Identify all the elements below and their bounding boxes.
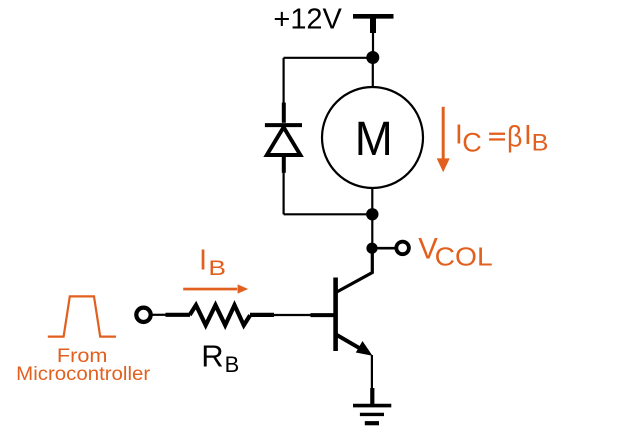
wire: diode branch vertical (bottom) <box>283 172 285 214</box>
resistor RB lead (right thick) <box>250 313 274 317</box>
svg-text:R: R <box>201 338 223 373</box>
svg-text:Microcontroller: Microcontroller <box>16 363 151 385</box>
wire: node A to motor <box>372 58 374 91</box>
svg-text:I: I <box>199 245 207 277</box>
IB current arrow <box>183 284 248 293</box>
transistor Q1 base lead (thick) <box>311 313 335 317</box>
resistor RB lead (left thick) <box>166 313 191 317</box>
+12V power rail symbol <box>353 16 394 33</box>
wire: node B to node C <box>371 214 373 248</box>
svg-text:C: C <box>462 128 482 158</box>
wire: diode branch vertical (top) <box>283 58 285 104</box>
transistor Q1 emitter lead with arrow <box>336 334 373 355</box>
node C (collector node) <box>366 243 377 254</box>
node B (junction dot at motor bottom) <box>366 208 378 220</box>
svg-text:β: β <box>507 120 522 153</box>
svg-text:B: B <box>208 256 226 280</box>
IB label <box>199 245 226 280</box>
wire: emitter to ground <box>371 355 373 389</box>
pulse waveform symbol <box>48 296 116 336</box>
IC = beta IB label <box>455 119 548 158</box>
svg-text:B: B <box>225 352 240 377</box>
VCOL terminal (open circle) <box>396 242 409 255</box>
node A (junction dot below +12V rail) <box>366 51 379 64</box>
IC current arrow <box>437 107 450 172</box>
svg-text:+12V: +12V <box>273 4 342 36</box>
svg-text:COL: COL <box>435 243 493 271</box>
svg-text:M: M <box>355 113 393 166</box>
VCOL label <box>418 232 493 271</box>
motor M1 <box>322 87 423 188</box>
wire: node C to VCOL terminal <box>372 247 395 250</box>
wire: diode branch bottom horizontal to node B <box>284 213 373 215</box>
svg-text:B: B <box>532 130 549 156</box>
input terminal (open circle) <box>136 308 150 322</box>
transistor Q1 collector lead <box>336 246 373 293</box>
wire: rail to node A <box>372 30 374 57</box>
RB label <box>201 338 239 377</box>
transistor Q1 base bar <box>333 278 338 352</box>
From Microcontroller label <box>16 346 151 385</box>
wire: resistor to transistor base <box>273 314 311 316</box>
resistor RB zigzag <box>190 305 250 325</box>
wire: node A to diode branch (top horizontal) <box>284 57 373 59</box>
diode D1 (flyback) <box>265 103 302 173</box>
wire: motor to node B <box>371 188 373 214</box>
ground <box>353 388 391 423</box>
wire: input terminal to resistor <box>151 314 166 316</box>
